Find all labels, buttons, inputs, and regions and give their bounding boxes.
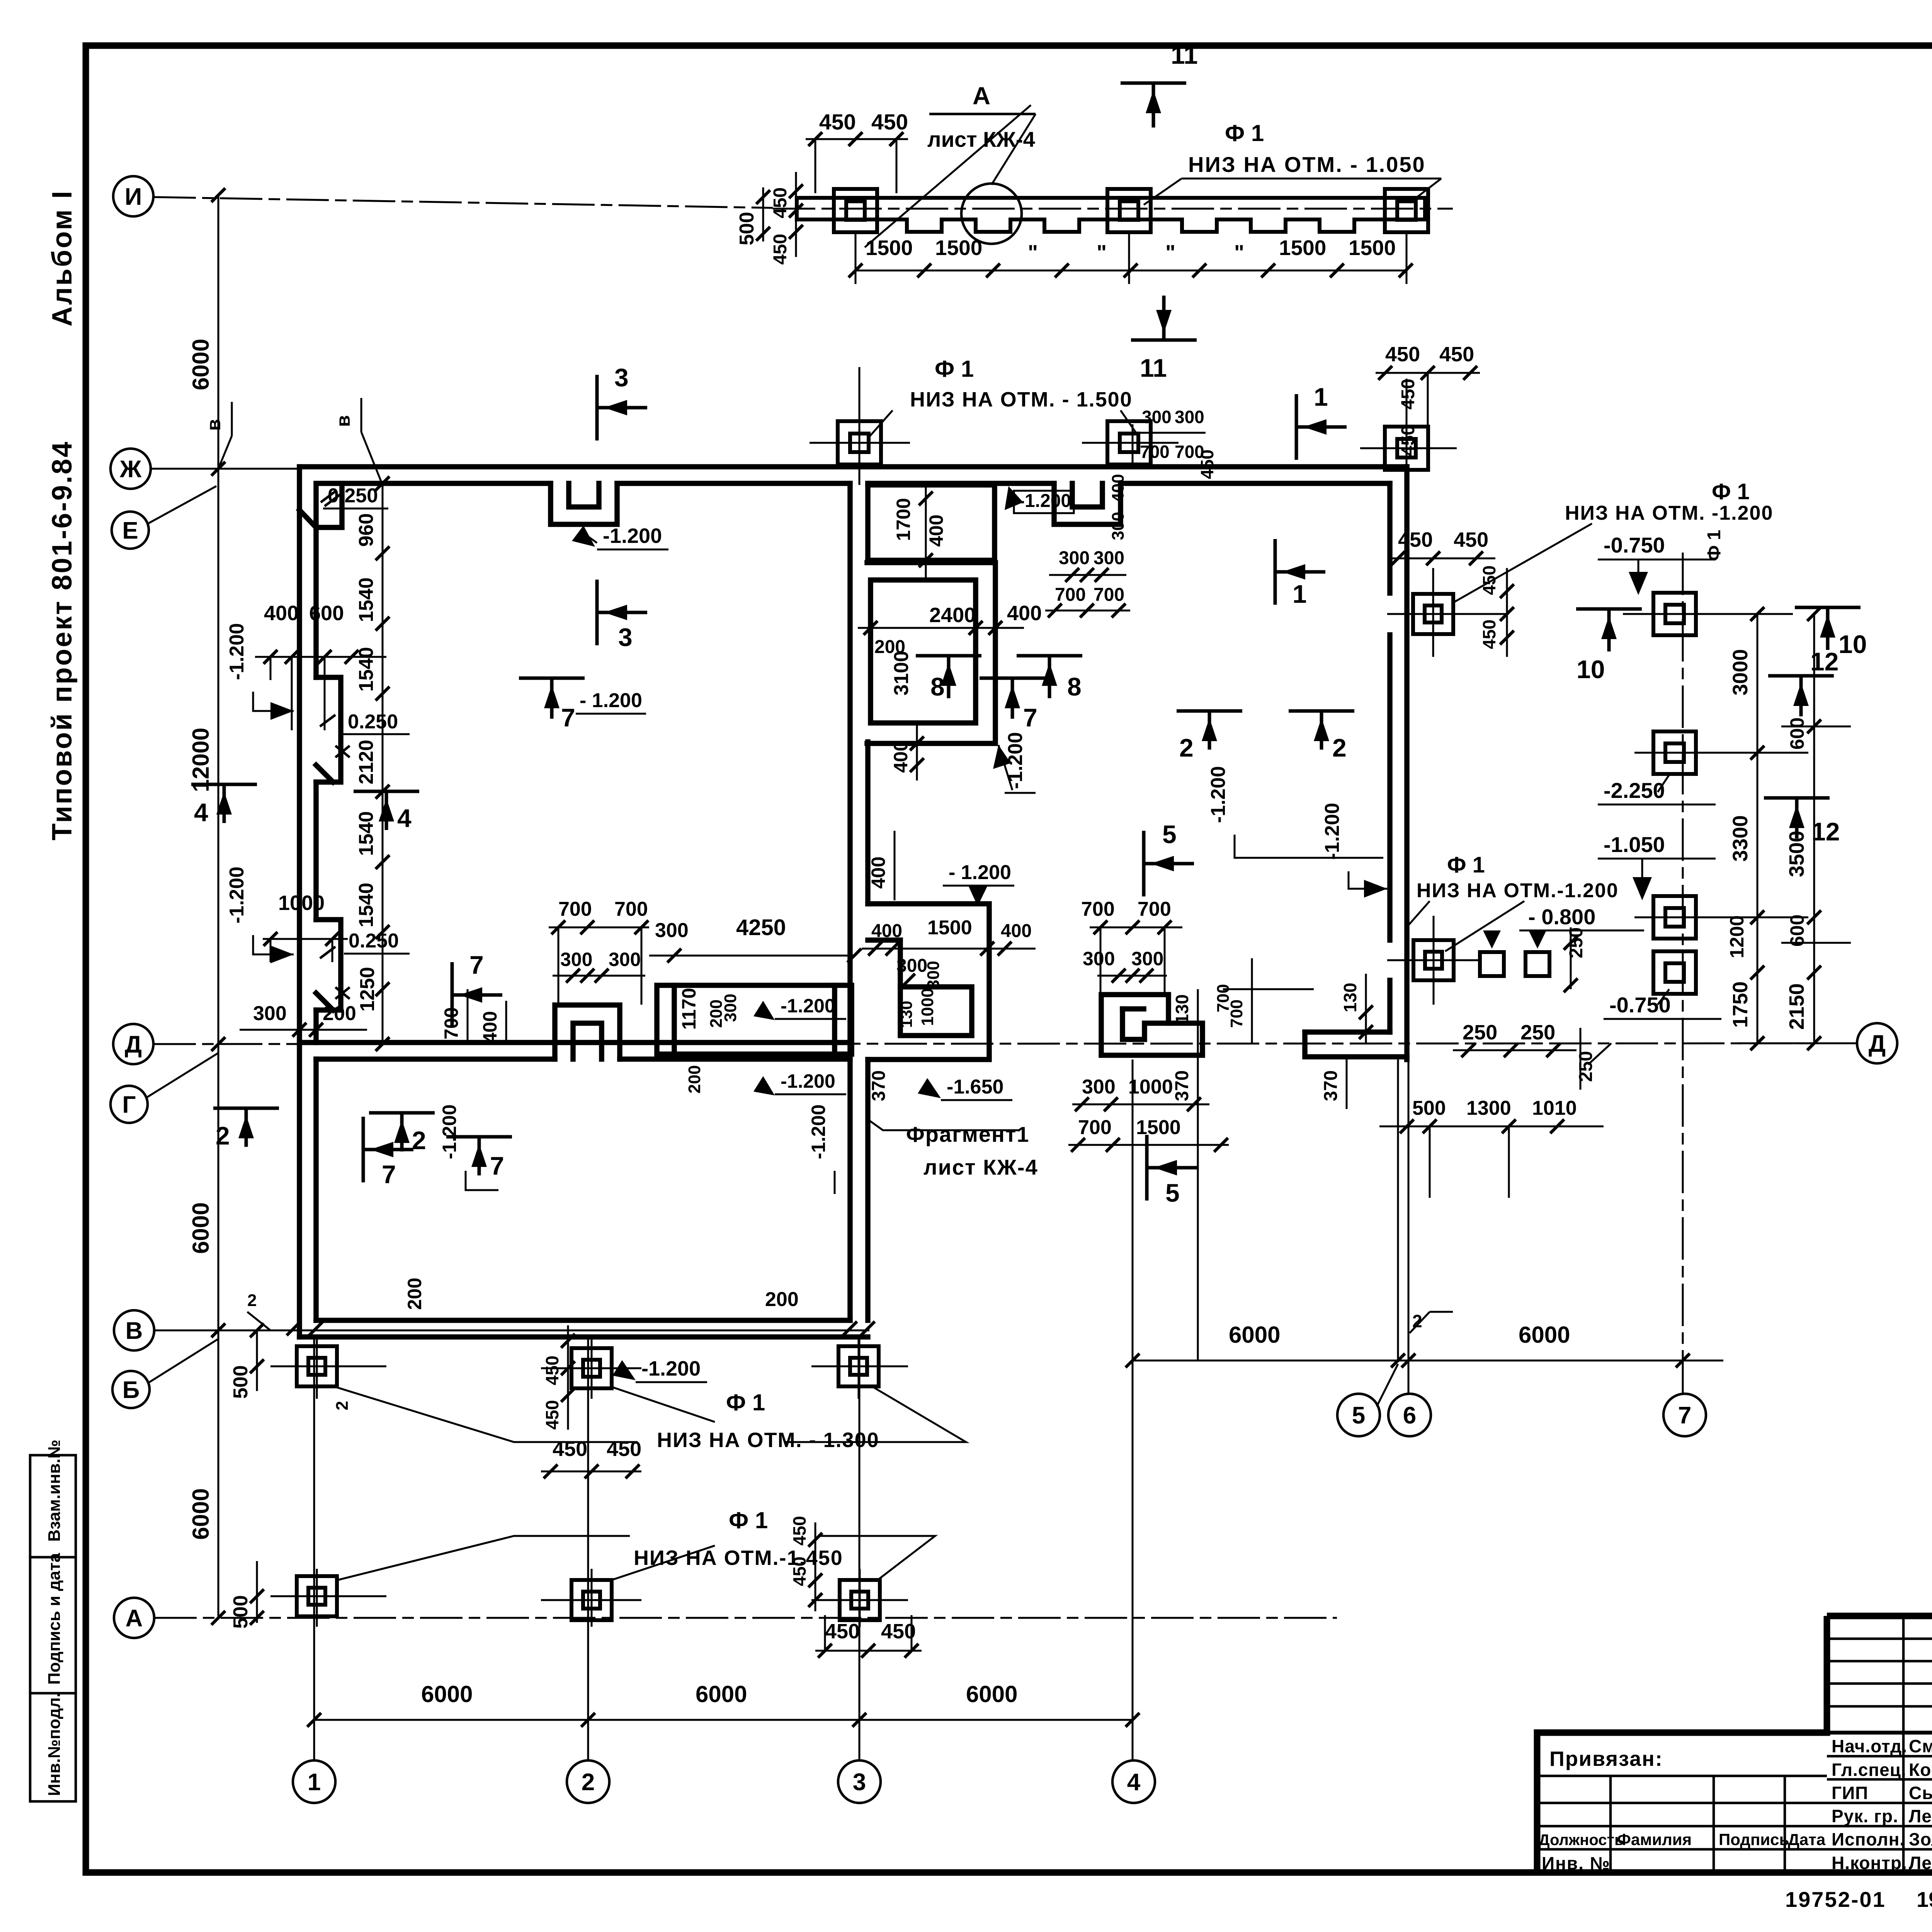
svg-text:-0.750: -0.750 (1609, 993, 1671, 1017)
svg-text:5: 5 (1352, 1402, 1365, 1429)
svg-text:И: И (125, 184, 142, 210)
svg-text:1700: 1700 (893, 498, 914, 541)
section 2 marks left block (213, 1107, 279, 1110)
left margin stamp boxes (30, 1455, 76, 1801)
top detail: foundation beam Ф1 on axis И (797, 196, 1425, 200)
svg-text:19752-01: 19752-01 (1785, 1887, 1886, 1912)
footing E axis7 -0.750 low (1653, 951, 1696, 994)
svg-text:600: 600 (1786, 915, 1808, 947)
svg-text:В: В (126, 1318, 143, 1344)
svg-text:в: в (332, 415, 354, 427)
axis Ж circle (111, 449, 151, 489)
axis Г circle (111, 1086, 148, 1123)
vert dim chain x990 (382, 483, 384, 1044)
svg-text:400: 400 (867, 857, 889, 889)
svg-text:1500: 1500 (866, 236, 913, 260)
svg-text:450: 450 (1385, 343, 1420, 366)
svg-text:700: 700 (1140, 442, 1170, 462)
svg-text:400: 400 (264, 602, 299, 625)
axis Д right tail (1739, 1043, 1857, 1044)
svg-text:450: 450 (1479, 619, 1499, 649)
svg-text:6000: 6000 (188, 1202, 214, 1254)
svg-text:400: 400 (1001, 921, 1032, 941)
svg-text:500: 500 (230, 1365, 252, 1399)
pit 2400x3100 outer (867, 563, 995, 743)
svg-text:Инв.№подл.: Инв.№подл. (45, 1692, 64, 1796)
svg-text:1000: 1000 (1128, 1076, 1173, 1098)
axis Ж line (151, 468, 299, 470)
svg-text:-1.050: -1.050 (1604, 832, 1665, 857)
svg-text:-1.200: -1.200 (226, 867, 248, 923)
svg-text:450: 450 (1479, 565, 1499, 595)
svg-text:-1.200: -1.200 (1321, 803, 1344, 860)
svg-text:Лесковская: Лесковская (1909, 1853, 1932, 1873)
svg-text:3: 3 (853, 1769, 866, 1796)
axis 4 line (1132, 424, 1134, 468)
two small squares -0.800 (1480, 952, 1504, 976)
axis А circle (114, 1598, 154, 1638)
dim line 1500s (855, 270, 1406, 272)
svg-text:1540: 1540 (355, 577, 378, 622)
axis 3 line (859, 1337, 861, 1760)
footing C axis7 -2.250 (1653, 731, 1696, 774)
svg-text:450: 450 (1454, 528, 1488, 551)
svg-text:-1.200: -1.200 (641, 1357, 701, 1380)
svg-text:300: 300 (560, 949, 592, 970)
svg-text:6000: 6000 (1519, 1322, 1570, 1348)
axis Б circle (112, 1371, 150, 1408)
axis Д line (153, 1043, 1855, 1044)
svg-text:7: 7 (490, 1151, 504, 1180)
svg-text:-1.200: -1.200 (781, 995, 835, 1017)
axis3 wall outer (847, 483, 853, 1320)
svg-text:700: 700 (1081, 898, 1115, 920)
svg-text:450: 450 (1398, 379, 1418, 410)
svg-text:700: 700 (1078, 1116, 1112, 1139)
svg-text:А: А (126, 1605, 143, 1632)
section 10 left (1576, 607, 1642, 611)
section 7 marks left-top pair (519, 677, 585, 680)
notch 2 in top wall (1054, 483, 1121, 524)
svg-text:Альбом I: Альбом I (47, 189, 78, 327)
svg-text:2: 2 (412, 1126, 426, 1155)
svg-text:в: в (203, 419, 224, 431)
svg-text:-1.200: -1.200 (781, 1070, 835, 1092)
wall along Д left block inner (316, 1056, 555, 1062)
svg-text:Привязан:: Привязан: (1549, 1747, 1663, 1770)
svg-text:300: 300 (609, 949, 641, 970)
svg-text:6000: 6000 (696, 1681, 747, 1707)
svg-text:500: 500 (736, 212, 758, 245)
svg-text:Нач.отд.: Нач.отд. (1832, 1736, 1907, 1756)
svg-text:1300: 1300 (1466, 1097, 1511, 1119)
svg-text:Ф 1: Ф 1 (1712, 479, 1750, 504)
stepped block on axis 4 (1101, 995, 1202, 1055)
axis Д right circle (1857, 1023, 1897, 1063)
section mark 11 top (1121, 82, 1186, 85)
svg-text:400: 400 (925, 515, 947, 547)
footing wall upper (axis6 row) (1413, 594, 1453, 634)
svg-text:450: 450 (553, 1437, 587, 1461)
svg-text:300: 300 (896, 956, 927, 976)
svg-text:11: 11 (1140, 354, 1167, 382)
svg-text:Ф 1: Ф 1 (935, 356, 974, 382)
svg-text:Фрагмент1: Фрагмент1 (906, 1122, 1029, 1146)
svg-text:1000: 1000 (918, 988, 937, 1026)
svg-text:Кокрев: Кокрев (1909, 1760, 1932, 1780)
pilaster P1 on left wall (316, 677, 341, 782)
svg-text:450: 450 (789, 1516, 810, 1546)
axis Г leader (147, 1053, 218, 1097)
svg-text:1500: 1500 (1279, 236, 1326, 260)
leader lines to Ф1 label (1144, 179, 1182, 205)
svg-text:-1.200: -1.200 (603, 524, 662, 548)
title block upper mini grid (1827, 1638, 1932, 1640)
svg-text:370: 370 (1321, 1070, 1341, 1101)
svg-text:700: 700 (1227, 1000, 1246, 1028)
svg-text:-1.650: -1.650 (947, 1076, 1003, 1098)
svg-text:450: 450 (770, 234, 791, 265)
footings row А (297, 1576, 337, 1616)
notch 1 in top wall (551, 483, 617, 524)
svg-text:7: 7 (382, 1160, 396, 1189)
svg-text:450: 450 (825, 1620, 860, 1643)
left annex grid (1537, 1775, 1827, 1777)
section 4 marks (191, 783, 257, 786)
svg-text:450: 450 (542, 1400, 562, 1430)
svg-text:300: 300 (253, 1002, 287, 1025)
axis 5 circle (1337, 1394, 1380, 1436)
beam footing mid (1107, 189, 1151, 232)
section 12 lower (1764, 796, 1830, 800)
svg-text:2: 2 (1332, 733, 1347, 762)
bottom-left room bottom wall В (299, 1334, 868, 1340)
svg-text:450: 450 (789, 1556, 810, 1586)
small rect room right of axis3 top (868, 485, 995, 560)
svg-text:1: 1 (1293, 580, 1307, 608)
svg-text:450: 450 (819, 110, 856, 134)
svg-text:370: 370 (1172, 1070, 1192, 1101)
svg-text:Взам.инв.№: Взам.инв.№ (45, 1440, 64, 1542)
svg-text:3500: 3500 (1785, 831, 1808, 877)
svg-text:200: 200 (323, 1002, 356, 1025)
axis А line (154, 1617, 1337, 1619)
section 7 right block (980, 677, 1045, 680)
svg-text:1540: 1540 (355, 647, 378, 692)
svg-text:- 1.200: - 1.200 (949, 861, 1011, 884)
svg-text:": " (1097, 240, 1107, 264)
svg-text:Д: Д (1869, 1031, 1886, 1057)
svg-text:НИЗ НА ОТМ. -1.200: НИЗ НА ОТМ. -1.200 (1565, 502, 1773, 524)
svg-text:Дата: Дата (1788, 1830, 1826, 1849)
fragment inner rect (900, 987, 972, 1036)
axis Е circle (112, 512, 149, 549)
long pit on Д wall (1170) (657, 985, 852, 1054)
svg-text:400: 400 (1109, 474, 1128, 502)
svg-text:6000: 6000 (1229, 1322, 1280, 1348)
svg-text:300: 300 (1131, 948, 1163, 969)
svg-text:1010: 1010 (1532, 1097, 1577, 1119)
axis 5 line (1397, 1060, 1399, 1362)
svg-text:300: 300 (924, 961, 943, 989)
footing axis6 x Ж (1385, 427, 1428, 470)
svg-text:1750: 1750 (1729, 981, 1752, 1028)
svg-text:Рук. гр.: Рук. гр. (1832, 1806, 1898, 1826)
svg-text:2: 2 (216, 1121, 230, 1150)
svg-text:1540: 1540 (355, 811, 378, 856)
svg-text:- 1.200: - 1.200 (580, 689, 642, 712)
svg-text:1: 1 (1314, 383, 1328, 411)
svg-text:лист КЖ-4: лист КЖ-4 (923, 1155, 1038, 1179)
svg-text:700: 700 (1094, 585, 1124, 605)
axis 1 line (313, 1337, 315, 1760)
svg-text:НИЗ НА ОТМ. - 1.500: НИЗ НА ОТМ. - 1.500 (910, 388, 1133, 411)
svg-text:4: 4 (397, 804, 412, 832)
axis 2 line (587, 1337, 589, 1760)
svg-text:1500: 1500 (1136, 1116, 1181, 1139)
svg-text:": " (1234, 240, 1244, 264)
svg-text:8: 8 (1067, 672, 1082, 701)
svg-text:НИЗ НА ОТМ. - 1.050: НИЗ НА ОТМ. - 1.050 (1188, 152, 1426, 177)
svg-text:4250: 4250 (736, 915, 786, 940)
mid dim line 6000x2 (1133, 1360, 1723, 1362)
svg-text:": " (1165, 240, 1175, 264)
svg-text:1000: 1000 (278, 891, 325, 915)
svg-text:-1.200: -1.200 (808, 1104, 829, 1159)
svg-text:2: 2 (582, 1769, 595, 1796)
axis 5 leader (1377, 1364, 1398, 1406)
section 8 marks (916, 654, 981, 658)
corner pilaster top-left (316, 483, 342, 527)
pilaster U on Д wall (555, 1005, 620, 1059)
svg-text:Смирнов: Смирнов (1909, 1736, 1932, 1756)
svg-text:0.250: 0.250 (349, 930, 399, 952)
axis И circle (113, 176, 153, 216)
svg-text:1170: 1170 (678, 988, 700, 1030)
svg-text:Сыркин: Сыркин (1909, 1783, 1932, 1803)
svg-text:1500: 1500 (1349, 236, 1396, 260)
connectors footing to dimline (855, 234, 857, 284)
svg-text:Г: Г (122, 1092, 136, 1118)
svg-text:А: А (973, 82, 990, 110)
svg-text:1500: 1500 (935, 236, 982, 260)
svg-text:- 0.800: - 0.800 (1528, 905, 1595, 929)
beam footing left (834, 189, 877, 232)
footing B axis7 -0.750 (1653, 593, 1696, 635)
pit inner (871, 580, 976, 723)
axis Е leader (148, 486, 216, 524)
svg-text:Фамилия: Фамилия (1617, 1830, 1692, 1849)
svg-text:Е: Е (122, 517, 138, 544)
svg-text:3300: 3300 (1729, 815, 1752, 862)
svg-text:3100: 3100 (890, 651, 913, 696)
left dim chain line (218, 195, 219, 1618)
svg-text:450: 450 (542, 1355, 562, 1385)
wall: top wall along Ж inner (with notches) (342, 481, 551, 486)
svg-text:300: 300 (1109, 512, 1128, 540)
leader to Д (1588, 1043, 1611, 1065)
wall along Д left block outer (299, 1040, 850, 1045)
svg-text:Ф 1: Ф 1 (729, 1507, 768, 1533)
right block bottom L piece (1305, 1029, 1390, 1035)
svg-text:2: 2 (333, 1401, 352, 1410)
axis 6 line (1408, 1060, 1410, 1394)
right dim chain 1 (1757, 614, 1759, 1043)
svg-text:300: 300 (1059, 548, 1090, 568)
axis В line (154, 1330, 869, 1332)
axis В circle (114, 1310, 154, 1350)
footing D axis7 -1.050 (1653, 896, 1696, 939)
footing axis3 x Ж (838, 421, 881, 464)
axis Б leader (149, 1339, 218, 1383)
section 1 marks right block (1295, 394, 1298, 460)
detail circle A (961, 184, 1022, 244)
svg-text:1: 1 (308, 1769, 321, 1796)
svg-text:Ф 1: Ф 1 (1447, 852, 1485, 878)
svg-text:1540: 1540 (355, 883, 378, 927)
svg-text:ГИП: ГИП (1832, 1783, 1868, 1803)
axis И line (153, 197, 773, 208)
section 7 marks bottom pair (362, 1117, 365, 1182)
svg-text:1250: 1250 (356, 967, 379, 1012)
svg-text:450: 450 (871, 110, 908, 134)
svg-text:500: 500 (1412, 1097, 1446, 1119)
svg-text:0.250: 0.250 (348, 711, 398, 733)
svg-text:6000: 6000 (421, 1681, 473, 1707)
svg-text:Ф 1: Ф 1 (1225, 120, 1264, 146)
section 12 upper (1768, 674, 1834, 678)
svg-text:Подпись и дата: Подпись и дата (45, 1553, 64, 1685)
fragment cluster outer (868, 904, 989, 1060)
pilaster P2 on left wall (316, 920, 341, 1010)
svg-text:700: 700 (558, 898, 592, 920)
axis Д circle (113, 1024, 153, 1064)
svg-text:600: 600 (309, 602, 344, 625)
footings row Б (297, 1346, 337, 1386)
svg-text:450: 450 (770, 187, 791, 218)
svg-text:300: 300 (1083, 948, 1115, 969)
svg-text:7: 7 (469, 951, 484, 979)
svg-text:Гл.спец.: Гл.спец. (1832, 1760, 1906, 1780)
svg-text:НИЗ НА ОТМ. - 1.300: НИЗ НА ОТМ. - 1.300 (657, 1429, 879, 1452)
svg-text:-2.250: -2.250 (1604, 778, 1665, 803)
svg-text:700: 700 (1055, 585, 1086, 605)
svg-text:130: 130 (1172, 994, 1192, 1024)
svg-text:10: 10 (1838, 630, 1867, 658)
svg-text:Золина: Золина (1909, 1829, 1932, 1849)
svg-text:450: 450 (1398, 528, 1433, 551)
section 2 marks right block (1177, 709, 1242, 713)
svg-text:400: 400 (1007, 602, 1042, 625)
svg-text:7: 7 (1678, 1402, 1691, 1429)
right dim chain 2 (1813, 614, 1815, 1043)
left wall inner (313, 527, 319, 677)
svg-text:4: 4 (194, 798, 208, 827)
axis 3 circle (838, 1760, 881, 1803)
footing axis4 x Ж (1107, 421, 1151, 464)
svg-text:600: 600 (1786, 718, 1808, 750)
svg-text:Ф 1: Ф 1 (726, 1389, 765, 1415)
left wall axis 1 outer (297, 467, 302, 1337)
people rows grid (1537, 1731, 1932, 1735)
svg-text:8: 8 (930, 672, 945, 701)
svg-text:Б: Б (122, 1377, 140, 1403)
svg-text:Лесковская: Лесковская (1909, 1806, 1932, 1826)
svg-text:400: 400 (479, 1011, 501, 1043)
svg-text:Н.контр.: Н.контр. (1832, 1853, 1907, 1873)
svg-text:12000: 12000 (188, 728, 214, 792)
svg-text:6: 6 (1403, 1402, 1416, 1429)
svg-text:6000: 6000 (188, 339, 214, 390)
svg-text:250: 250 (1576, 1051, 1596, 1082)
right block right wall (1404, 467, 1410, 1060)
svg-text:700: 700 (1138, 898, 1171, 920)
axis 4 circle (1112, 1760, 1155, 1803)
svg-text:450: 450 (607, 1437, 641, 1461)
svg-text:5: 5 (1165, 1179, 1180, 1207)
svg-text:200: 200 (765, 1288, 799, 1311)
svg-text:4: 4 (1127, 1769, 1141, 1796)
svg-text:130: 130 (897, 1001, 915, 1028)
svg-text:-1.200: -1.200 (1207, 766, 1230, 823)
svg-text:300: 300 (721, 994, 740, 1022)
section 5 marks (1142, 831, 1146, 896)
beam footing right (1385, 189, 1428, 232)
svg-text:200: 200 (685, 1065, 704, 1094)
footing wall lower (1413, 940, 1454, 980)
svg-text:НИЗ НА ОТМ.-1.450: НИЗ НА ОТМ.-1.450 (634, 1546, 843, 1570)
svg-text:370: 370 (869, 1070, 889, 1101)
axis 1 circle (293, 1760, 335, 1803)
svg-text:400: 400 (890, 741, 912, 773)
svg-text:2120: 2120 (355, 740, 378, 784)
svg-text:450: 450 (1439, 343, 1474, 366)
svg-text:250: 250 (1520, 1021, 1555, 1044)
svg-text:-1.200: -1.200 (226, 623, 248, 680)
svg-text:300: 300 (1094, 548, 1124, 568)
svg-text:Инв. №: Инв. № (1542, 1853, 1611, 1873)
svg-text:300: 300 (1082, 1076, 1116, 1098)
svg-text:5: 5 (1162, 820, 1177, 849)
svg-text:300: 300 (1142, 407, 1172, 427)
svg-text:300: 300 (1175, 407, 1204, 427)
svg-text:Должность: Должность (1539, 1832, 1624, 1849)
svg-text:Исполн.: Исполн. (1832, 1829, 1905, 1849)
svg-text:Типовой проект 801-6-9.84: Типовой проект 801-6-9.84 (47, 440, 78, 840)
svg-text:250: 250 (1463, 1021, 1497, 1044)
svg-text:500: 500 (230, 1595, 252, 1629)
section 7 mark near U (451, 962, 454, 1028)
svg-text:-0.750: -0.750 (1604, 533, 1665, 557)
svg-text:7: 7 (561, 703, 575, 732)
axis 6 circle (1388, 1394, 1431, 1436)
svg-text:0.250: 0.250 (328, 485, 378, 507)
svg-text:2400: 2400 (929, 604, 976, 627)
svg-text:2: 2 (247, 1291, 257, 1310)
hatch mark corner pilaster (321, 491, 336, 502)
svg-text:10: 10 (1577, 655, 1605, 684)
svg-text:Ж: Ж (119, 456, 142, 483)
section 3 marks (595, 375, 599, 440)
svg-text:2150: 2150 (1785, 983, 1808, 1030)
svg-text:19: 19 (1917, 1887, 1932, 1912)
axis 7 line (1682, 553, 1684, 1394)
section 10 right (1795, 606, 1861, 609)
svg-text:12: 12 (1811, 817, 1840, 846)
svg-text:1500: 1500 (927, 917, 972, 939)
svg-text:6000: 6000 (188, 1488, 214, 1540)
svg-text:Ф 1: Ф 1 (1704, 530, 1725, 561)
